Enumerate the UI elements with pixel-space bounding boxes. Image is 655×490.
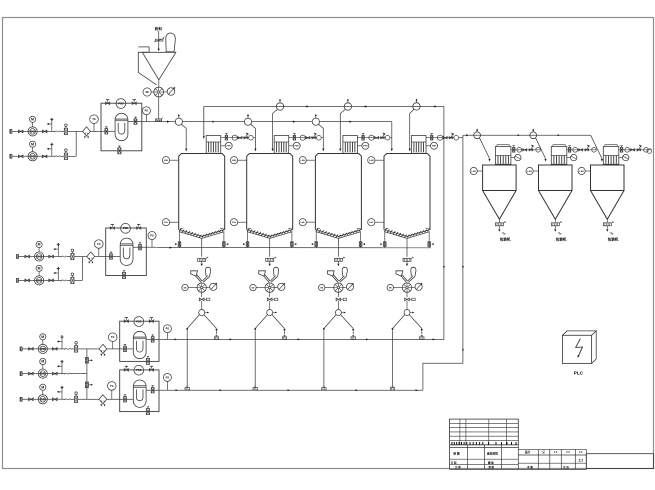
tank T1 leg valve right xyxy=(223,240,225,248)
inlet terminal P2A xyxy=(16,255,18,259)
svg-text:日 期: 日 期 xyxy=(451,460,457,464)
inlet valve E4 xyxy=(124,397,127,402)
wire T4 train to riser xyxy=(459,137,463,139)
train end gauge T4 xyxy=(454,135,459,140)
branch left T2 xyxy=(255,315,267,329)
svg-text:LSH: LSH xyxy=(369,160,374,162)
bag filter T2 xyxy=(274,136,289,154)
header fitting upper T1 xyxy=(214,337,218,340)
inlet valve E1 xyxy=(105,129,108,134)
flex joint P2A xyxy=(61,256,66,258)
top valve E2a xyxy=(110,227,114,229)
title block xyxy=(450,419,519,445)
tank T2 legs xyxy=(247,232,249,240)
skid box E4 xyxy=(120,370,159,412)
svg-text:包装机: 包装机 xyxy=(500,237,511,242)
valve P1Bb xyxy=(42,155,47,158)
level switch LSH C1 xyxy=(470,167,477,174)
train valve T4a xyxy=(431,135,433,140)
motor P2B xyxy=(36,265,42,271)
vessel E4 xyxy=(133,380,146,407)
svg-text:PSH: PSH xyxy=(363,146,368,148)
relief valve P2A xyxy=(57,245,59,257)
train 3way valve C2 xyxy=(585,149,589,151)
valve P3Aa xyxy=(29,348,34,351)
manifold arrow xyxy=(169,247,172,249)
header fitting lower T4 xyxy=(390,388,394,391)
flow arrow main 2 xyxy=(293,121,296,123)
flex joint P3A xyxy=(65,348,70,350)
train 3way valve T2 xyxy=(312,137,316,139)
flow arrow main 1 xyxy=(167,121,170,123)
svg-text:PS: PS xyxy=(166,375,170,379)
main line seg3 xyxy=(252,121,313,123)
train gauge C2 xyxy=(573,147,578,152)
svg-text:LSH: LSH xyxy=(301,160,306,162)
train line C2 xyxy=(567,149,597,151)
drain valve E2 xyxy=(122,273,125,279)
wire T3 train to T4 drop xyxy=(390,137,392,139)
train line T4 xyxy=(426,137,454,139)
slide gate C2 xyxy=(551,223,559,226)
rotary valve T1 xyxy=(197,283,206,292)
slide gate C1 xyxy=(495,223,503,226)
top valve E1b xyxy=(132,102,136,105)
wire strainer to skid C1 xyxy=(107,348,120,350)
hopper outlet xyxy=(158,80,160,87)
cyclone C2 cone xyxy=(539,191,573,220)
flex joint P1B xyxy=(54,156,59,158)
svg-text:# #: # # xyxy=(566,451,570,454)
pressure gauge C1 xyxy=(515,154,521,160)
valve below rotary T2 xyxy=(269,292,271,297)
drop to tank T4 feed xyxy=(391,122,393,149)
upper bottom header xyxy=(169,338,444,340)
rotary valve T2 xyxy=(265,283,274,292)
diverter T2 xyxy=(269,301,271,310)
drain valve E4 xyxy=(146,409,149,415)
arrow into feeder T2 xyxy=(269,261,271,263)
valve P3Ca xyxy=(29,398,34,401)
top valve E3b xyxy=(149,320,153,323)
vent pot V2 xyxy=(276,103,283,110)
discharge C1 xyxy=(498,219,500,222)
top valve E2b xyxy=(137,227,141,229)
arrow on riser x463 xyxy=(462,266,464,268)
pump P1A xyxy=(28,127,37,136)
sensor SE T4 xyxy=(387,284,393,290)
train valve T3b xyxy=(375,137,379,139)
svg-text:# #: # # xyxy=(579,451,583,454)
outlet valve E3 xyxy=(151,337,154,342)
svg-text:M: M xyxy=(41,335,44,339)
svg-text:LSL: LSL xyxy=(232,222,237,224)
relief valve P3C xyxy=(61,387,63,399)
outlet valve E4 xyxy=(151,388,154,393)
control valve P2B xyxy=(71,277,74,283)
svg-text:PS: PS xyxy=(145,109,149,113)
train gauge T3 xyxy=(369,135,374,140)
cyclone C3 body xyxy=(591,165,625,191)
valve P2Aa xyxy=(25,255,30,258)
pressure gauge C2 xyxy=(571,154,577,160)
drive indicator M0 xyxy=(167,88,175,96)
outlet line E3 xyxy=(146,338,169,340)
motor P1B xyxy=(29,141,35,147)
motor P3B xyxy=(40,358,46,364)
main line west xyxy=(152,121,176,123)
train valve C1b xyxy=(523,149,527,151)
svg-text:PSH: PSH xyxy=(227,146,232,148)
rotary outlet drop xyxy=(158,97,160,119)
u-tube E1 xyxy=(118,123,125,134)
feed funnel T1 xyxy=(191,271,198,276)
wire strainer to skid B xyxy=(95,256,106,258)
lower header step xyxy=(423,135,463,390)
branch left T1 xyxy=(187,315,199,329)
discharge C3 xyxy=(606,219,608,222)
valve below rotary T4 xyxy=(406,292,408,297)
tank T2 leg valve right xyxy=(291,240,293,248)
lower bottom header xyxy=(169,389,423,391)
outlet line E2 xyxy=(133,246,156,248)
tank T3 screen xyxy=(316,230,361,237)
train end gauge C2 xyxy=(592,148,597,153)
drain valve E3 xyxy=(146,358,149,364)
header fitting upper T4 xyxy=(420,337,424,340)
wire junction riser B xyxy=(81,257,83,281)
vent pot V4 xyxy=(413,103,420,110)
train end gauge T3 xyxy=(385,135,390,140)
svg-text:M: M xyxy=(31,142,34,146)
svg-text:制 图: 制 图 xyxy=(453,452,460,456)
slide gate T1 xyxy=(198,258,206,261)
gauge TG E4 xyxy=(108,382,117,391)
diagonal into C2 xyxy=(536,138,546,159)
pressure switch PSH T4 xyxy=(431,142,438,149)
svg-text:1:2: 1:2 xyxy=(578,459,583,463)
svg-text:LSH: LSH xyxy=(232,160,237,162)
tank T4 legs xyxy=(384,232,386,240)
vent drop to tank T4 xyxy=(410,109,414,148)
flow arrow main 3 xyxy=(349,121,352,123)
level switch LSH C2 xyxy=(526,167,533,174)
rotary valve T3 xyxy=(334,283,343,292)
valve P3Bb xyxy=(53,372,58,375)
outlet line E1 xyxy=(128,121,152,123)
outlet valve E1 xyxy=(134,119,137,124)
inlet terminal P3B xyxy=(20,372,22,376)
train gauge T1 xyxy=(232,135,237,140)
sensor SE T1 xyxy=(182,284,188,290)
wire P2B to junction xyxy=(77,279,82,281)
u-tube E4 xyxy=(136,389,143,400)
feed line P2B xyxy=(18,279,61,281)
vessel E1 xyxy=(115,113,128,140)
feed funnel T4 xyxy=(396,271,403,276)
train end gauge C3 xyxy=(644,148,649,153)
skid box E1 xyxy=(101,103,142,151)
svg-text:包装机: 包装机 xyxy=(608,237,619,242)
svg-text:TG: TG xyxy=(92,117,96,121)
skid box E3 xyxy=(120,321,159,361)
arrow into feeder T1 xyxy=(201,261,203,263)
control valve P3A xyxy=(75,346,78,352)
bag filter T4 xyxy=(412,136,427,154)
relief valve P1B xyxy=(51,144,53,156)
svg-text:LSH: LSH xyxy=(527,171,532,173)
svg-text:PSH: PSH xyxy=(295,146,300,148)
gauge PS E4 xyxy=(163,373,171,381)
svg-text:LSL: LSL xyxy=(369,222,374,224)
tank T1 body xyxy=(179,154,225,230)
feed line P3B xyxy=(22,373,65,375)
svg-text:To: To xyxy=(610,232,614,236)
valve below rotary T1 xyxy=(201,292,203,297)
drive T3 xyxy=(346,283,353,290)
gauge PGS E4 xyxy=(134,365,144,375)
train end gauge T1 xyxy=(249,135,254,140)
diagonal into C1 xyxy=(480,138,490,159)
train valve C3b xyxy=(631,149,635,151)
valve P1Aa xyxy=(18,130,23,133)
gauge TG E1 xyxy=(90,115,99,124)
bag filter C3 xyxy=(603,147,619,165)
wire strainer to skid C2 xyxy=(107,398,120,400)
vent drop to tank T2 xyxy=(273,109,278,148)
train valve C2b xyxy=(579,149,583,151)
inlet terminal P1A xyxy=(10,130,12,134)
motor P3A xyxy=(40,334,46,340)
train gauge T2 xyxy=(300,135,305,140)
feed line P3C xyxy=(22,398,65,400)
wire P3B to riser xyxy=(70,373,87,375)
wire P1B to junction xyxy=(71,155,76,157)
tank T2 body xyxy=(247,154,293,230)
vent flow arrow 2 xyxy=(364,105,367,107)
level switch LSH T1 xyxy=(162,157,169,164)
gauge PGS E3 xyxy=(134,317,144,327)
tank T4 leg valve left xyxy=(384,240,386,248)
train valve T3a xyxy=(362,135,364,140)
vent header left drop xyxy=(203,107,205,137)
slide gate T2 xyxy=(266,258,274,261)
valve P3Ab xyxy=(53,348,58,351)
feed line P2A xyxy=(18,256,61,258)
svg-text:To: To xyxy=(502,232,506,236)
outlet drop T3 xyxy=(337,238,339,256)
branch left T3 xyxy=(324,315,336,329)
slide gate C3 xyxy=(603,223,611,226)
header fitting lower T3 xyxy=(322,388,326,391)
pressure switch PSH T2 xyxy=(293,142,300,149)
tank T1 legs xyxy=(179,232,181,240)
gauge PS E1 xyxy=(142,107,150,115)
train gauge C3 xyxy=(625,147,630,152)
gauge PS E2 xyxy=(148,232,156,240)
train line T1 xyxy=(221,137,249,139)
train 3way valve T4 xyxy=(449,137,453,139)
inlet terminal P3C xyxy=(20,397,22,401)
pump P3B xyxy=(38,369,47,378)
top valve E4a xyxy=(124,369,128,372)
motor P1A xyxy=(29,116,35,122)
drain valve E1 xyxy=(118,148,121,154)
header fitting upper T3 xyxy=(351,337,355,340)
strainer F4 xyxy=(99,395,107,404)
svg-text:M: M xyxy=(38,267,41,271)
svg-text:共 张: 共 张 xyxy=(563,465,569,469)
train valve C3a xyxy=(620,148,622,153)
branch left T4 xyxy=(393,315,405,329)
flex joint P1A xyxy=(54,131,59,133)
valve P1Ab xyxy=(42,130,47,133)
svg-text:張 數: 張 數 xyxy=(488,465,494,469)
train line C1 xyxy=(511,149,541,151)
bag filter on hopper xyxy=(166,33,176,52)
valve P3Cb xyxy=(53,398,58,401)
svg-text:TG: TG xyxy=(97,242,101,246)
cyclone C2 body xyxy=(539,165,573,191)
svg-text:PGS: PGS xyxy=(136,320,141,323)
feed line P1B xyxy=(12,155,55,157)
train valve C1a xyxy=(513,148,515,153)
arrow into feeder T3 xyxy=(337,261,339,263)
vent drop to tank T3 xyxy=(340,109,345,148)
branch right T2 xyxy=(272,315,285,329)
wire T2 train to T3 drop xyxy=(321,137,323,139)
diverter T4 xyxy=(406,301,408,310)
svg-text:# #: # # xyxy=(554,451,558,454)
svg-text:LSL: LSL xyxy=(164,222,169,224)
under-tank manifold xyxy=(157,247,431,249)
drive T4 xyxy=(415,283,422,290)
branch right T3 xyxy=(341,315,354,329)
gauge PGS E2 xyxy=(121,223,131,233)
svg-text:PSH: PSH xyxy=(432,146,437,148)
train valve T2b xyxy=(306,137,310,139)
wire riser to strainer C1 xyxy=(87,348,99,350)
svg-text:LSH: LSH xyxy=(164,160,169,162)
outlet drop T1 xyxy=(201,238,203,256)
flex joint P3B xyxy=(65,373,70,375)
svg-text:設計: 設計 xyxy=(525,450,531,454)
inlet valve E2 xyxy=(110,254,113,259)
tank T3 leg valve left xyxy=(315,240,317,248)
outlet valve E2 xyxy=(139,245,142,250)
outlet line E4 xyxy=(146,389,169,391)
drop to tank T3 xyxy=(318,124,323,148)
svg-text:圖 號: 圖 號 xyxy=(488,460,494,464)
rotary valve RV0 xyxy=(154,87,164,97)
train gauge T4 xyxy=(437,135,442,140)
svg-text:M: M xyxy=(41,385,44,389)
valve P3Ba xyxy=(29,372,34,375)
drop to tank T2 xyxy=(251,124,256,148)
feeder pot T1 xyxy=(175,118,182,125)
tank T3 leg valve right xyxy=(360,240,362,248)
butterfly valve feed xyxy=(155,39,163,41)
control valve P2A xyxy=(71,253,74,259)
branch right T1 xyxy=(204,315,217,329)
vent header xyxy=(204,106,444,108)
lower header arrows xyxy=(176,389,178,391)
level switch LSH T2 xyxy=(230,157,237,164)
gauge TG E3 xyxy=(108,333,117,342)
svg-text:本 图: 本 图 xyxy=(526,465,533,469)
feeder pot T2 xyxy=(244,118,251,125)
control valve P1A xyxy=(64,128,67,134)
slide gate T3 xyxy=(334,258,342,261)
svg-text:PLC: PLC xyxy=(574,370,584,375)
bag filter T1 xyxy=(206,136,221,154)
branch right T4 xyxy=(409,315,422,329)
valve P2Ab xyxy=(49,255,54,258)
wire strainer to skid A xyxy=(90,130,101,132)
pressure switch PSH T3 xyxy=(362,142,369,149)
wire B to strainer xyxy=(77,256,87,258)
drive T2 xyxy=(278,283,285,290)
top valve E1a xyxy=(106,102,110,105)
level switch LSH T4 xyxy=(368,157,375,164)
feed line P1A xyxy=(12,130,55,132)
main line seg4 xyxy=(319,121,391,123)
svg-text:PGS: PGS xyxy=(118,102,123,105)
arrow into feeder T4 xyxy=(406,261,408,263)
train 3way valve T3 xyxy=(381,137,385,139)
pump P1B xyxy=(28,152,37,161)
control valve P3C xyxy=(75,396,78,402)
top valve E4b xyxy=(149,369,153,372)
train valve C2a xyxy=(568,148,570,153)
tank T2 leg valve left xyxy=(247,240,249,248)
bag filter T3 xyxy=(343,136,358,154)
discharge C2 xyxy=(554,219,556,222)
header fitting lower T1 xyxy=(185,388,189,391)
wire riser to strainer C2 xyxy=(87,398,99,400)
train 3way valve C1 xyxy=(529,149,533,151)
train line T3 xyxy=(357,137,385,139)
train 3way valve C3 xyxy=(637,149,641,151)
level switch LSH C3 xyxy=(578,167,585,174)
cyclone C3 cone xyxy=(591,191,625,220)
gauge TG E2 xyxy=(95,240,104,249)
outlet drop T2 xyxy=(269,238,271,256)
svg-text:PGS: PGS xyxy=(123,227,128,230)
pump P2A xyxy=(35,252,44,261)
wire P3A to riser xyxy=(81,348,87,350)
riser group C xyxy=(86,349,88,399)
svg-text:粉料: 粉料 xyxy=(155,26,163,31)
wire T1 train to T2 drop xyxy=(253,137,255,139)
relief valve P3A xyxy=(61,337,63,349)
drive T1 xyxy=(210,283,217,290)
tank T3 body xyxy=(315,154,361,230)
main line seg2 xyxy=(182,121,244,123)
tank T3 legs xyxy=(315,232,317,240)
cyclone feed line xyxy=(463,134,591,136)
reducer fitting xyxy=(156,119,162,122)
discharge arrow C1 xyxy=(498,226,500,229)
vessel E3 xyxy=(133,331,146,358)
feed funnel T2 xyxy=(259,271,266,276)
svg-text:包装机: 包装机 xyxy=(556,237,567,242)
cyclone C1 body xyxy=(483,165,516,191)
train line T2 xyxy=(289,137,317,139)
bag filter C2 xyxy=(551,147,567,165)
relief valve P1A xyxy=(51,119,53,131)
tank T1 leg valve left xyxy=(179,240,181,248)
